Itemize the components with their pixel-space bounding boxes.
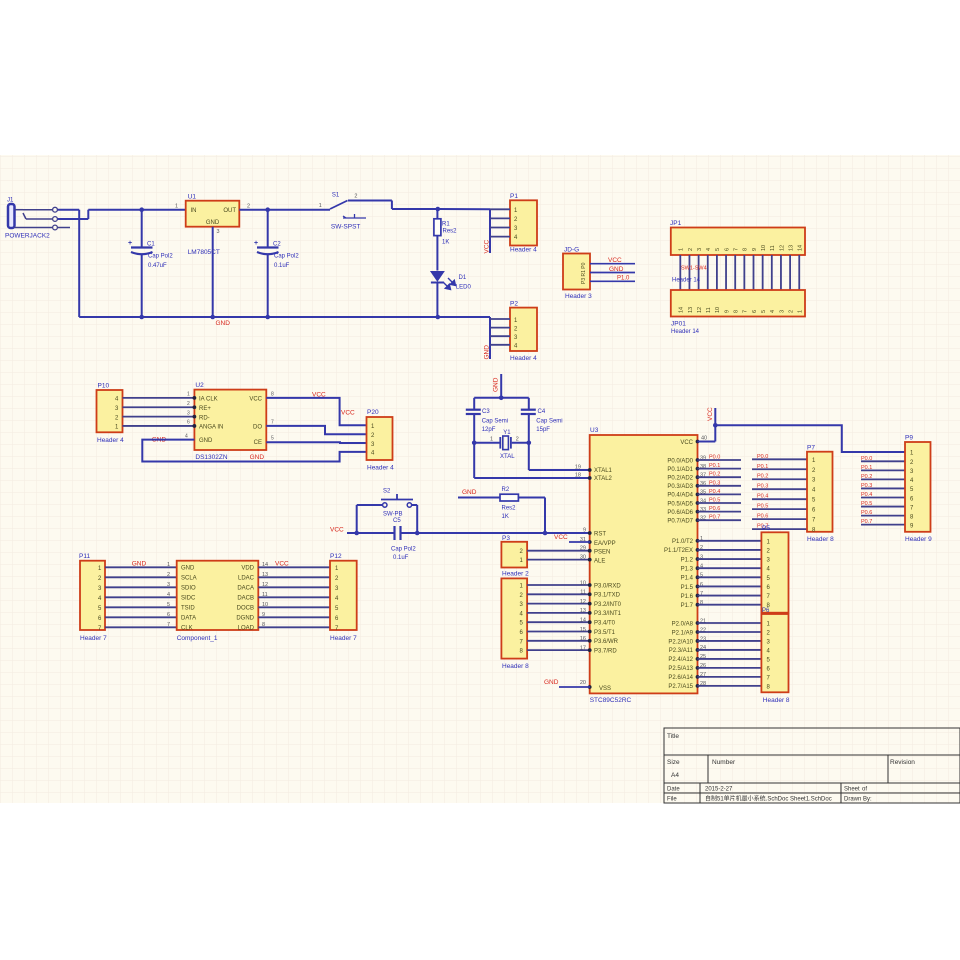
svg-text:P0.6: P0.6 [709,506,720,512]
svg-text:14: 14 [679,307,685,313]
svg-text:P12: P12 [330,553,342,560]
svg-text:Cap Pol2: Cap Pol2 [391,547,416,553]
svg-text:20: 20 [580,680,586,686]
svg-text:11: 11 [706,307,712,313]
svg-text:P1.2: P1.2 [681,557,694,563]
svg-text:P2.6/A14: P2.6/A14 [668,675,693,681]
svg-text:6: 6 [187,420,190,426]
svg-text:10: 10 [715,307,721,313]
svg-text:P0.7: P0.7 [709,515,720,521]
svg-text:Sheet: Sheet [844,787,860,793]
svg-text:RE+: RE+ [199,406,211,412]
wires U3 P2 ports [698,623,762,686]
svg-text:P1.0: P1.0 [617,276,630,282]
header P6 [761,608,790,704]
svg-text:P3: P3 [502,535,510,542]
svg-text:18: 18 [575,472,581,478]
svg-text:DS1302ZN: DS1302ZN [195,454,227,461]
capacitor C2 [254,210,299,317]
header P9 [905,435,932,544]
svg-text:15: 15 [580,627,586,633]
header P11 [79,553,107,642]
header JP1 [670,220,805,255]
svg-text:U3: U3 [590,427,599,434]
svg-text:P3.2/INT0: P3.2/INT0 [594,602,622,608]
wire XTAL2 to U3 [474,477,590,479]
label header14 upper [672,278,701,284]
svg-text:DGND: DGND [236,616,254,622]
mcu pin junction marks [588,440,700,689]
wires U3 P0 ports [698,460,742,520]
svg-text:P0.6: P0.6 [861,510,872,516]
svg-text:P2.5/A13: P2.5/A13 [668,666,693,672]
svg-text:GND: GND [544,679,559,686]
svg-text:XTAL1: XTAL1 [594,468,613,474]
svg-text:U2: U2 [195,382,204,389]
net label GND at P11 [132,561,147,568]
wire to P1 bus [438,208,490,210]
svg-text:7: 7 [167,622,170,628]
svg-text:P0.2: P0.2 [757,474,768,480]
svg-text:7: 7 [743,310,749,313]
svg-text:2: 2 [247,204,250,210]
svg-text:A4: A4 [671,772,679,779]
svg-text:13: 13 [688,307,694,313]
net label VCC at P1 [484,239,491,253]
wire R2 to reset net [543,498,548,536]
svg-text:4: 4 [770,310,776,313]
svg-text:Cap Semi: Cap Semi [482,419,508,425]
svg-text:P0.5: P0.5 [861,501,872,507]
svg-text:P0.0: P0.0 [861,456,872,462]
net labels P0 at P7 [757,454,768,530]
svg-text:P3.7/RD: P3.7/RD [594,648,617,654]
pin numbers component left [167,562,170,628]
svg-text:GND: GND [484,345,491,360]
resistor R2 [458,487,545,520]
svg-text:P0.3: P0.3 [757,484,768,490]
net label VCC vertical [707,407,714,421]
svg-text:14: 14 [580,618,586,624]
wires into P1 [490,209,510,253]
svg-text:SIDC: SIDC [181,596,196,602]
svg-text:GND: GND [216,320,231,327]
reset wire left [347,532,394,534]
svg-text:P2: P2 [510,301,518,308]
svg-text:VCC: VCC [707,407,714,421]
svg-text:S2: S2 [383,489,391,495]
svg-text:P0.3: P0.3 [861,483,872,489]
svg-text:LDAC: LDAC [238,576,255,582]
net label VCC at reset [330,527,344,534]
capacitor C4 [521,398,563,470]
svg-text:12: 12 [779,245,785,251]
svg-text:P0.2/AD2: P0.2/AD2 [667,476,693,482]
svg-text:VCC: VCC [312,392,326,399]
svg-text:VCC: VCC [680,440,693,446]
regulator U1 [175,194,250,257]
capacitor C1 [128,210,173,317]
svg-text:IA CLK: IA CLK [199,397,218,403]
svg-text:D1: D1 [459,275,467,281]
capacitor C5 [391,518,416,561]
wire VCC to P9 [715,425,905,452]
svg-text:P3 R1 P0: P3 R1 P0 [581,262,587,284]
svg-text:2: 2 [788,310,794,313]
svg-text:2: 2 [187,401,190,407]
wires P4 to U3 [527,585,590,650]
svg-text:8: 8 [734,310,740,313]
svg-text:LOAD: LOAD [238,626,255,632]
svg-text:C2: C2 [273,242,281,248]
svg-text:0.47uF: 0.47uF [148,263,167,269]
svg-text:VCC: VCC [554,534,568,541]
switch S1 SW-SPST [319,193,438,231]
svg-text:DO: DO [253,425,262,431]
net labels P0 at P9 [861,456,872,525]
svg-text:SDIO: SDIO [181,586,196,592]
header P1 [510,193,537,254]
svg-text:5: 5 [715,248,721,251]
svg-text:19: 19 [575,464,581,470]
svg-text:VCC: VCC [330,527,344,534]
wire U1 GND to rail [212,227,214,317]
svg-text:P5: P5 [762,525,770,532]
svg-text:Drawn By:: Drawn By: [844,797,872,803]
chip U2 [185,382,274,461]
wire U2 DO to P20 [266,426,366,434]
svg-text:13: 13 [788,245,794,251]
svg-text:P1.6: P1.6 [681,594,694,600]
sheet background [0,155,960,803]
svg-text:P10: P10 [98,383,110,390]
svg-text:GND: GND [199,438,213,444]
svg-text:P0.2: P0.2 [709,472,720,478]
net label VCC at P12 [275,561,289,568]
svg-text:12: 12 [697,307,703,313]
pin numbers component right [262,562,268,628]
chip Component_1 [177,561,259,642]
svg-text:Header 8: Header 8 [807,536,834,543]
svg-text:14: 14 [798,245,804,251]
svg-text:DACA: DACA [237,586,254,592]
wire jack sleeve to ground [58,210,80,317]
svg-text:P0.1/AD1: P0.1/AD1 [667,467,693,473]
svg-text:0.1uF: 0.1uF [393,555,409,561]
svg-text:PSEN: PSEN [594,550,610,556]
wires from JD-G [590,264,635,282]
svg-text:4: 4 [167,592,170,598]
svg-text:GND: GND [250,454,265,461]
svg-text:JP01: JP01 [671,321,686,328]
svg-text:P0.4: P0.4 [757,494,768,500]
svg-text:Header 8: Header 8 [763,697,790,704]
wires P10 to U2 [123,398,195,426]
net label GND at P2 [484,345,491,360]
svg-text:VCC: VCC [608,257,622,264]
svg-text:J1: J1 [7,198,14,204]
wire U2 GND loop [142,440,366,462]
svg-text:C5: C5 [393,518,401,524]
net label GND at VSS [544,679,559,686]
svg-text:Component_1: Component_1 [177,635,218,642]
svg-text:GND: GND [181,566,195,572]
svg-text:P0.0: P0.0 [709,455,720,461]
wires component to P12 [258,567,330,627]
reset wire right [401,532,590,534]
net label GND above crystal caps [493,377,500,392]
svg-text:Date: Date [667,787,680,793]
svg-text:P1.5: P1.5 [681,585,694,591]
net label VCC at P20 [341,410,355,417]
svg-text:XTAL2: XTAL2 [594,476,613,482]
svg-text:P1.7: P1.7 [681,603,694,609]
svg-text:P0.7: P0.7 [861,519,872,525]
svg-text:P3.3/INT1: P3.3/INT1 [594,611,622,617]
svg-text:P1: P1 [510,193,518,200]
svg-text:4: 4 [185,433,188,439]
svg-text:6: 6 [724,248,730,251]
svg-text:15pF: 15pF [536,427,550,433]
svg-text:P0.0: P0.0 [757,454,768,460]
svg-text:P0.3: P0.3 [709,480,720,486]
svg-text:ALE: ALE [594,558,605,564]
svg-text:3: 3 [697,248,703,251]
svg-text:Header 2: Header 2 [502,571,529,578]
svg-text:DACB: DACB [237,596,254,602]
svg-text:12pF: 12pF [482,427,496,433]
svg-text:C3: C3 [482,409,490,415]
svg-text:SCLA: SCLA [181,576,197,582]
svg-text:C1: C1 [147,242,155,248]
svg-text:30: 30 [580,554,586,560]
wire U1 out [239,209,330,211]
svg-text:SW-PB: SW-PB [383,512,403,518]
net label VCC [608,257,622,264]
svg-text:2: 2 [354,194,357,200]
svg-text:1: 1 [167,562,170,568]
svg-text:P0.4: P0.4 [861,492,872,498]
wires into P2 [490,317,510,359]
svg-text:1K: 1K [442,240,449,246]
svg-text:P0.6: P0.6 [757,514,768,520]
resistor R1 [434,209,457,271]
push button S2 [357,489,418,518]
svg-text:P0.7/AD7: P0.7/AD7 [667,519,693,525]
svg-text:VCC: VCC [484,239,491,253]
header P10 [97,383,125,445]
svg-text:11: 11 [770,245,776,251]
junction stubs for button [354,505,419,535]
net labels P0 at U3 [709,455,720,521]
svg-text:Res2: Res2 [443,229,458,235]
svg-text:1: 1 [798,310,804,313]
svg-text:Revision: Revision [890,759,915,766]
svg-text:LED0: LED0 [456,285,472,291]
svg-text:5: 5 [761,310,767,313]
wires P11 to component [105,567,177,627]
svg-text:P0.1: P0.1 [757,464,768,470]
wires into P7 [752,459,807,529]
svg-text:Header 8: Header 8 [502,663,529,670]
svg-text:29: 29 [580,546,586,552]
svg-text:P0.4: P0.4 [709,489,720,495]
svg-text:2: 2 [167,572,170,578]
net label GND at R2 [462,489,477,496]
svg-text:Header 14: Header 14 [671,329,700,335]
svg-text:3: 3 [779,310,785,313]
svg-text:Cap Pol2: Cap Pol2 [274,254,299,260]
capacitor C3 [466,398,508,478]
svg-text:+: + [254,240,258,247]
svg-text:POWERJACK2: POWERJACK2 [5,233,50,240]
net label GND under U2 right [250,454,265,461]
svg-text:1: 1 [319,203,322,209]
header JP2 [671,290,805,335]
svg-text:5: 5 [167,602,170,608]
svg-text:13: 13 [580,608,586,614]
svg-text:9: 9 [583,528,586,534]
svg-text:of: of [862,787,867,793]
svg-text:P0.3/AD3: P0.3/AD3 [667,484,693,490]
svg-text:2: 2 [516,437,519,443]
svg-text:STC89C52RC: STC89C52RC [590,697,632,704]
svg-text:P0.1: P0.1 [861,465,872,471]
svg-text:Header 3: Header 3 [565,293,592,300]
net label SW keys [681,266,707,272]
svg-text:LM7805CT: LM7805CT [188,249,220,256]
svg-text:IN: IN [191,208,197,214]
svg-text:17: 17 [580,645,586,651]
svg-text:DATA: DATA [181,616,196,622]
svg-text:CLK: CLK [181,626,193,632]
svg-text:3: 3 [167,582,170,588]
crystal top rail [474,396,529,401]
wire GND to VSS pin [559,686,590,688]
ground label GND at rail [216,320,231,327]
svg-text:3: 3 [187,410,190,416]
net label P1.0 [617,276,630,282]
svg-text:P2.1/A9: P2.1/A9 [672,630,694,636]
svg-text:P2.4/A12: P2.4/A12 [668,657,693,663]
svg-text:GND: GND [206,220,220,226]
connector JD-G [563,247,592,301]
svg-text:Title: Title [667,733,679,740]
wire gnd stub [500,374,502,398]
svg-text:Header 4: Header 4 [510,355,537,362]
svg-text:TSID: TSID [181,606,195,612]
svg-text:SW-SPST: SW-SPST [331,224,361,231]
svg-text:10: 10 [761,245,767,251]
wires into P9 [861,461,905,524]
svg-text:VDD: VDD [241,566,254,572]
svg-text:4: 4 [706,248,712,251]
svg-text:P1.3: P1.3 [681,566,694,572]
wire VCC riser [713,408,718,442]
svg-text:1: 1 [679,248,685,251]
svg-text:Header 4: Header 4 [97,437,124,444]
svg-text:P0.1: P0.1 [709,463,720,469]
svg-text:P0.2: P0.2 [861,474,872,480]
net label GND at U2 pin4 [152,437,167,444]
svg-text:P11: P11 [79,553,90,560]
svg-text:VCC: VCC [249,397,262,403]
svg-text:Header 7: Header 7 [80,635,107,642]
svg-text:P7: P7 [807,445,815,452]
svg-text:Size: Size [667,759,680,766]
svg-text:1: 1 [490,437,493,443]
junction above R1 [436,207,441,212]
svg-text:EA/VPP: EA/VPP [594,541,616,547]
ground rail [79,316,490,318]
LED D1 [431,272,472,318]
svg-text:P0.4/AD4: P0.4/AD4 [667,493,693,499]
rail junctions [139,315,440,320]
header P2 [510,301,537,363]
svg-text:Res2: Res2 [502,506,517,512]
svg-text:Number: Number [712,759,736,766]
svg-text:16: 16 [580,636,586,642]
svg-text:P3.4/T0: P3.4/T0 [594,621,616,627]
svg-text:P0.6/AD6: P0.6/AD6 [667,510,693,516]
wire U3 VCC pin [698,441,716,443]
svg-text:Y1: Y1 [503,430,511,436]
svg-text:11: 11 [580,590,586,596]
svg-text:C4: C4 [538,409,546,415]
svg-text:DOCB: DOCB [237,606,254,612]
svg-text:GND: GND [132,561,147,568]
header P4 [501,578,529,670]
svg-text:9: 9 [752,248,758,251]
svg-text:Header 4: Header 4 [510,247,537,254]
svg-text:ANGA IN: ANGA IN [199,425,223,431]
svg-text:P0.5: P0.5 [709,498,720,504]
title block [664,728,960,803]
svg-text:Header 4: Header 4 [367,465,394,472]
svg-text:P0.5/AD5: P0.5/AD5 [667,501,693,507]
header P7 [807,445,834,544]
header P3 [501,535,529,578]
crystal Y1 [472,430,531,460]
svg-text:1: 1 [175,204,178,210]
svg-text:1: 1 [187,392,190,398]
svg-text:0.1uF: 0.1uF [274,263,290,269]
svg-text:6: 6 [752,310,758,313]
net label GND [609,266,624,273]
svg-text:P2.7/A15: P2.7/A15 [668,684,693,690]
junction at C2 top [265,207,270,212]
svg-text:P9: P9 [905,435,913,442]
svg-text:2015-2-27: 2015-2-27 [705,787,733,793]
svg-text:JP1: JP1 [670,220,682,227]
svg-text:OUT: OUT [223,208,236,214]
net label VCC on U2 wire [312,392,326,399]
header P20 [367,409,395,472]
svg-text:P2.2/A10: P2.2/A10 [668,639,693,645]
svg-text:5: 5 [271,435,274,441]
svg-text:Header 7: Header 7 [330,635,357,642]
wire U2 VCC to P20 [266,398,366,425]
wire VCC to EA pin [569,541,590,543]
wire jack tip to regulator input [58,210,186,219]
net label VCC at EA [554,534,568,541]
svg-text:XTAL: XTAL [500,454,515,460]
junction at C1 top [139,207,144,212]
pin numbers xtal [575,464,581,478]
svg-text:U1: U1 [188,194,197,201]
svg-text:JD-G: JD-G [564,247,579,254]
svg-text:P0.0/AD0: P0.0/AD0 [667,458,693,464]
